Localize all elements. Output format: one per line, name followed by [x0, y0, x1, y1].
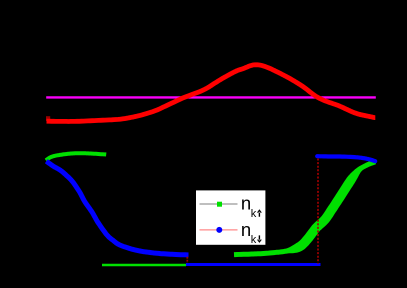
blue n_k_down bottom baseline	[186, 263, 321, 266]
green n_k_up right rise (variable-width band)	[234, 160, 376, 258]
svg-text:n: n	[241, 193, 251, 214]
legend down-arrow (row 2)	[257, 235, 262, 243]
legend up-arrow (row 1)	[257, 209, 262, 217]
blue n_k_down left sigmoid	[46, 161, 188, 255]
red dashed step tick at left Fermi point	[186, 257, 188, 264]
dark red marker at dispersion left end	[46, 116, 50, 121]
legend box	[195, 190, 266, 246]
magenta Fermi level line	[46, 96, 376, 98]
green n_k_up bottom baseline	[102, 264, 186, 267]
legend green square marker	[217, 202, 222, 207]
svg-text:n: n	[241, 219, 251, 240]
legend blue circle marker	[216, 227, 222, 233]
red dispersion curve	[47, 65, 376, 122]
red dashed vertical at right Fermi point	[317, 159, 319, 264]
svg-text:k: k	[251, 208, 257, 220]
blue n_k_down top right line	[317, 156, 375, 161]
legend sample line 1 (gray)	[200, 203, 238, 205]
green n_k_up left arc	[46, 153, 106, 160]
svg-text:k: k	[251, 234, 257, 246]
legend sample line 2 (salmon)	[200, 229, 238, 231]
